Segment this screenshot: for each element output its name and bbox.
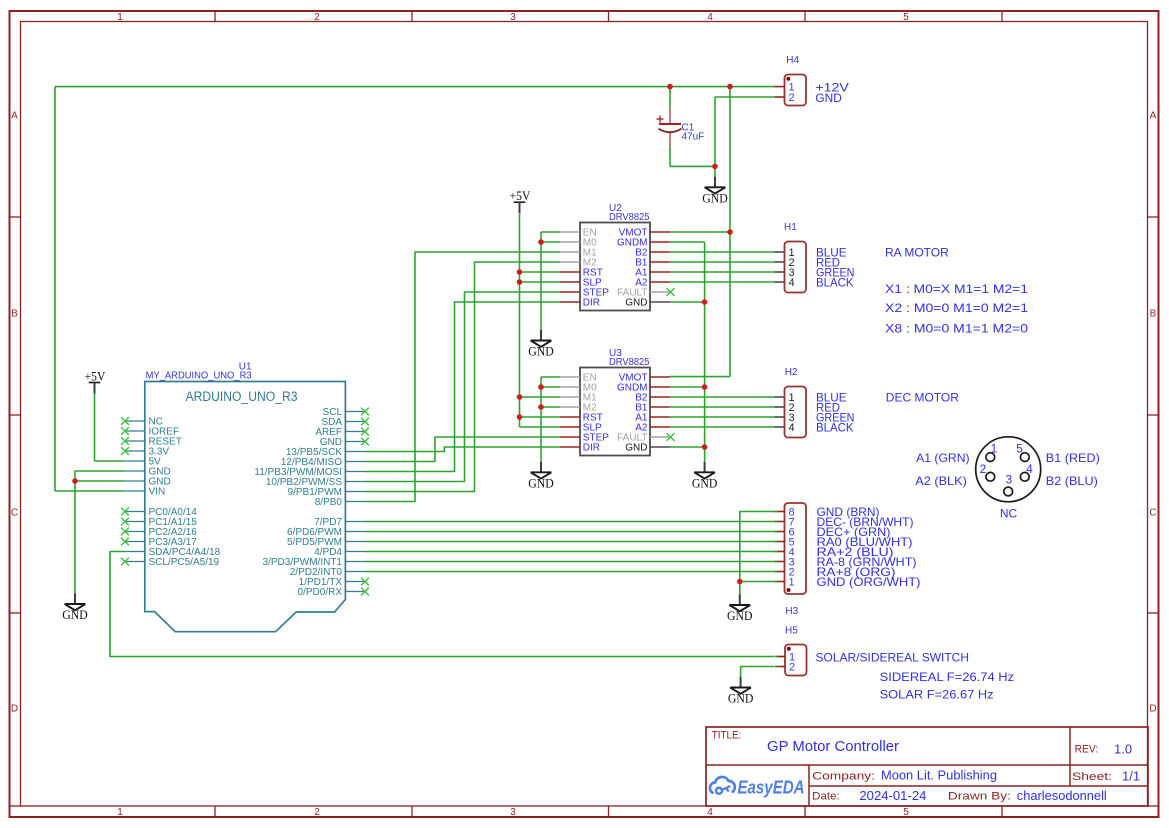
svg-text:GND (ORG/WHT): GND (ORG/WHT) (817, 575, 921, 589)
svg-text:RA MOTOR: RA MOTOR (885, 246, 949, 260)
svg-text:Sheet:: Sheet: (1072, 771, 1112, 783)
svg-text:2: 2 (980, 462, 987, 476)
no-connect X on U2 FAULT (667, 288, 675, 296)
ground under U3 left (528, 462, 554, 491)
wire D13/SCK to U3 DIR (366, 447, 561, 452)
svg-text:DIR: DIR (583, 443, 600, 454)
power flag +5V right (510, 188, 531, 213)
svg-text:A2 (BLK): A2 (BLK) (915, 474, 967, 488)
svg-text:VIN: VIN (149, 487, 166, 498)
svg-text:DRV8825: DRV8825 (609, 357, 650, 368)
svg-text:GND: GND (727, 608, 753, 623)
svg-text:H1: H1 (784, 222, 797, 233)
svg-text:1/1: 1/1 (1122, 769, 1140, 784)
svg-text:1: 1 (117, 12, 123, 23)
wire net GND U2: EN, M0 to ground (541, 232, 560, 330)
svg-text:4: 4 (707, 807, 713, 818)
svg-text:4: 4 (789, 422, 795, 434)
op-amp U2 DRV8825 stepper driver (560, 203, 670, 311)
net labels H3 pins (817, 505, 921, 589)
svg-text:SIDEREAL F=26.74 Hz: SIDEREAL F=26.74 Hz (880, 670, 1015, 684)
wire D12/MISO to U3 STEP (366, 437, 561, 462)
svg-text:X1 : M0=X M1=1 M2=1: X1 : M0=X M1=1 M2=1 (885, 282, 1028, 296)
no-connect X marks Arduino right pins (361, 408, 369, 596)
svg-text:1: 1 (789, 576, 795, 588)
wire D10/SS to U2 STEP (366, 292, 561, 482)
ground shared U2/U3 right (692, 462, 718, 491)
svg-text:H4: H4 (786, 55, 799, 66)
svg-text:GND: GND (528, 344, 554, 359)
svg-text:Moon Lit. Publishing: Moon Lit. Publishing (881, 768, 997, 783)
pin numbers circular connector (980, 441, 1034, 486)
svg-text:D: D (11, 704, 18, 715)
wire D7..D2 to H3 pins 7..2 (366, 522, 775, 572)
svg-text:SOLAR F=26.67 Hz: SOLAR F=26.67 Hz (880, 688, 994, 702)
svg-text:4: 4 (1026, 462, 1033, 476)
wire D8 to U2 M1 (366, 252, 561, 502)
wire Arduino GND pins to ground (75, 471, 124, 594)
svg-text:0/PD0/RX: 0/PD0/RX (298, 587, 343, 598)
svg-text:C: C (11, 508, 18, 519)
no-connect X marks Arduino left pins (121, 417, 129, 565)
svg-text:GND: GND (815, 91, 842, 105)
svg-text:2024-01-24: 2024-01-24 (859, 788, 926, 803)
svg-text:GP Motor Controller: GP Motor Controller (767, 738, 899, 755)
wire U3 B2/B1/A1/A2 to H2 (670, 397, 775, 427)
svg-text:Drawn By:: Drawn By: (948, 791, 1011, 803)
svg-text:GND: GND (692, 475, 718, 490)
svg-text:4: 4 (707, 12, 713, 23)
wire D11/MOSI to U2 DIR (366, 302, 561, 472)
svg-text:X8 : M0=0 M1=1 M2=0: X8 : M0=0 M1=1 M2=0 (885, 322, 1028, 336)
ground H5 (728, 677, 754, 706)
svg-text:MY_ARDUINO_UNO_R3: MY_ARDUINO_UNO_R3 (146, 371, 252, 382)
svg-text:H5: H5 (785, 626, 798, 637)
connector H2 (DEC motor) (775, 387, 807, 438)
ground Arduino GND (62, 594, 88, 623)
wire net +5V right rail: U2 RST/SLP, U3 M1/RST/SLP (520, 214, 561, 428)
ground H3 (727, 595, 753, 624)
svg-text:TITLE:: TITLE: (712, 730, 742, 742)
svg-text:3: 3 (510, 12, 516, 23)
connector circular DIN (motor plug) (976, 437, 1041, 502)
svg-text:+5V: +5V (85, 368, 106, 383)
net labels H2: BLUE RED GREEN BLACK (816, 391, 855, 435)
svg-text:47uF: 47uF (682, 132, 705, 143)
wire net +5V left: to Arduino 5V pin (95, 394, 125, 462)
svg-text:H3: H3 (785, 606, 798, 617)
svg-text:B2 (BLU): B2 (BLU) (1046, 474, 1098, 488)
svg-text:NC: NC (1000, 507, 1018, 521)
svg-text:charlesodonnell: charlesodonnell (1017, 788, 1107, 803)
capacitor C1 47uF (657, 108, 705, 148)
svg-text:8/PB0: 8/PB0 (315, 497, 343, 508)
svg-text:H2: H2 (785, 367, 798, 378)
svg-text:2: 2 (789, 92, 795, 104)
microcontroller U1 ARDUINO_UNO_R3 (124, 382, 366, 632)
no-connect X on U3 FAULT (667, 433, 675, 441)
svg-text:1: 1 (991, 441, 998, 455)
op-amp U3 DRV8825 stepper driver (560, 348, 670, 456)
svg-text:X2 : M0=0 M1=0 M2=1: X2 : M0=0 M1=0 M2=1 (885, 301, 1028, 315)
svg-text:GND: GND (528, 475, 554, 490)
svg-text:1: 1 (117, 807, 123, 818)
svg-text:5: 5 (903, 807, 909, 818)
wire net +12V: top rail, left rail to VIN, VMOT rail (55, 87, 775, 491)
svg-text:GND: GND (625, 443, 647, 454)
svg-text:2: 2 (314, 807, 320, 818)
wire SDA/PC4 to H5 pin1 (110, 552, 775, 657)
wire net GNDM rail: U2 GNDM/GND, U3 GNDM/GND (670, 242, 705, 462)
svg-text:EasyEDA: EasyEDA (738, 777, 805, 798)
svg-text:3: 3 (1005, 473, 1012, 487)
svg-text:REV:: REV: (1075, 744, 1099, 756)
svg-text:5: 5 (1016, 441, 1023, 455)
wire H3 pin8/pin1 ground loop (740, 512, 775, 595)
svg-text:C: C (1149, 508, 1156, 519)
svg-text:GND: GND (702, 190, 728, 205)
svg-text:D: D (1149, 704, 1156, 715)
wire net GND: H4 pin2, C1 bottom, gnd drop (670, 97, 775, 177)
connector H3 (RA/DEC motor cable) (775, 503, 807, 594)
svg-text:BLACK: BLACK (816, 276, 854, 290)
wire U2 B2/B1/A1/A2 to H1 (670, 252, 775, 282)
ground under C1 (702, 177, 728, 206)
svg-text:1.0: 1.0 (1114, 742, 1132, 757)
svg-text:DRV8825: DRV8825 (609, 212, 650, 223)
svg-text:2: 2 (789, 661, 795, 673)
svg-text:3: 3 (510, 807, 516, 818)
svg-text:2: 2 (314, 12, 320, 23)
svg-text:+5V: +5V (510, 188, 531, 203)
svg-text:Date:: Date: (812, 791, 840, 803)
svg-text:B: B (11, 309, 18, 320)
svg-text:A: A (11, 111, 18, 122)
svg-text:GND: GND (728, 691, 754, 706)
svg-text:GND: GND (62, 607, 88, 622)
svg-text:SCL/PC5/A5/19: SCL/PC5/A5/19 (149, 557, 220, 568)
power flag +5V left (85, 368, 106, 393)
svg-text:4: 4 (789, 277, 795, 289)
svg-text:A1 (GRN): A1 (GRN) (916, 451, 970, 465)
svg-text:Company:: Company: (812, 771, 875, 783)
wire H5 pin2 to ground (741, 667, 775, 678)
wire net GND U3: EN, M0, M2 to ground (541, 377, 560, 462)
svg-text:GND: GND (625, 298, 647, 309)
svg-text:ARDUINO_UNO_R3: ARDUINO_UNO_R3 (186, 389, 298, 404)
svg-text:DIR: DIR (583, 298, 600, 309)
svg-text:DEC MOTOR: DEC MOTOR (886, 391, 959, 405)
wire D9 to U2 M2 (366, 262, 561, 492)
svg-text:B: B (1150, 309, 1157, 320)
svg-text:BLACK: BLACK (816, 421, 854, 435)
svg-text:B1 (RED): B1 (RED) (1046, 451, 1100, 465)
connector H4 (+12V input) (775, 55, 807, 105)
svg-text:SOLAR/SIDEREAL SWITCH: SOLAR/SIDEREAL SWITCH (816, 651, 970, 665)
svg-text:A: A (1150, 111, 1157, 122)
connector H1 (RA motor) (775, 242, 807, 293)
ground under U2 left (528, 330, 554, 359)
svg-text:5: 5 (903, 12, 909, 23)
connector H5 (solar/sidereal switch) (775, 645, 807, 676)
net labels H1: BLUE RED GREEN BLACK (816, 246, 855, 290)
